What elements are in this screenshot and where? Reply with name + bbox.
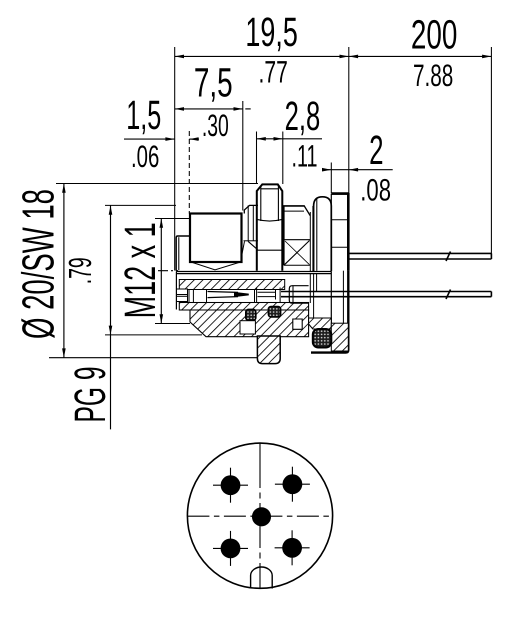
m12 ext top — [155, 218, 190, 220]
ext line 7,5 right — [242, 101, 244, 211]
ext line right 200 — [490, 47, 492, 256]
pg9 ext top — [105, 204, 176, 206]
svg-text:7,5: 7,5 — [194, 59, 233, 105]
ext line 2,8 left — [256, 132, 258, 185]
thread runout V — [191, 262, 241, 270]
section boundary line — [176, 270, 331, 272]
wire break slash — [446, 290, 451, 300]
svg-text:PG 9: PG 9 — [66, 367, 115, 423]
gasket arch — [314, 197, 332, 271]
hex nut SW18 — [257, 184, 283, 270]
collar cylinder — [284, 206, 305, 265]
wire break slash — [446, 252, 451, 262]
svg-text:200: 200 — [411, 12, 458, 58]
svg-text:.77: .77 — [259, 54, 288, 89]
dia20 dim line vertical — [63, 184, 65, 358]
svg-text:.11: .11 — [292, 139, 318, 174]
arrows 2 outside — [322, 168, 331, 172]
pin 4 — [282, 538, 302, 558]
pin 2 — [283, 474, 303, 494]
thread barrel M12 — [190, 214, 242, 263]
svg-text:M12 x 1: M12 x 1 — [116, 222, 165, 318]
shell wall hatch top band — [179, 280, 284, 290]
svg-text:.30: .30 — [202, 108, 229, 143]
seal ring small 1 — [246, 309, 256, 320]
pg9 body mass hatch — [190, 310, 309, 337]
dia20 ext bottom — [49, 357, 258, 359]
arrows 200 — [482, 55, 491, 59]
ext line 1,5 right dashed — [188, 131, 190, 214]
svg-text:1,5: 1,5 — [126, 92, 161, 138]
svg-text:.79: .79 — [62, 257, 98, 284]
flange upper — [331, 194, 348, 271]
shell wall hatch bottom band — [179, 303, 308, 311]
face circle — [187, 443, 332, 588]
pin 5 center — [252, 507, 271, 526]
front pin tube — [177, 289, 188, 302]
svg-text:.06: .06 — [131, 139, 159, 174]
arrows 19,5 — [175, 55, 184, 59]
dim line 2 — [323, 169, 393, 171]
white notch in mass — [240, 321, 255, 334]
m12 dim line vertical — [160, 219, 162, 324]
svg-text:19,5: 19,5 — [245, 9, 297, 55]
vertical centerline — [259, 443, 261, 589]
washer slab — [309, 212, 311, 271]
arrows 2,8 — [257, 137, 266, 141]
flange lower hatch — [331, 323, 348, 351]
ext line 2 left — [330, 163, 332, 194]
seal ring small 2 — [268, 307, 280, 317]
dim line 19,5 — [175, 55, 349, 57]
step notch white — [293, 319, 302, 329]
centerline stub — [158, 270, 178, 272]
section boundary line 2 — [176, 273, 331, 275]
upper wire — [350, 252, 492, 262]
gasket lower verticals — [309, 274, 311, 304]
svg-text:7.88: 7.88 — [413, 58, 453, 93]
arrows m12 — [160, 219, 164, 228]
ext line 2,8 right — [282, 132, 284, 185]
washer step — [244, 205, 258, 213]
shell left edge — [175, 271, 177, 309]
arrows 1,5 outside — [165, 137, 174, 141]
svg-text:2,8: 2,8 — [285, 93, 321, 139]
dim line 200 — [349, 55, 492, 57]
dim line 7,5 — [175, 108, 243, 110]
svg-text:2: 2 — [369, 127, 383, 173]
ext line mid 19,5/200/2 — [348, 47, 350, 193]
pg9 ext bottom — [105, 334, 202, 336]
gasket pocket hatch — [309, 318, 332, 329]
sleeve — [289, 286, 308, 304]
thread runout X — [285, 241, 310, 265]
hex lower section hatch — [257, 336, 280, 364]
keyway notch — [251, 567, 273, 589]
ext line left 19,5 / 1,5 — [174, 47, 176, 271]
dia20 ext top — [56, 183, 258, 185]
front tip step — [176, 236, 190, 271]
lower wire — [281, 290, 491, 300]
dim line 1,5 — [124, 138, 175, 140]
pin 3 — [221, 539, 241, 559]
horizontal centerline — [187, 515, 332, 517]
dim line 2,8 — [257, 138, 323, 140]
big O-ring seal — [313, 329, 332, 348]
arrows 7,5 — [175, 107, 184, 111]
flange lower slab — [311, 271, 348, 353]
svg-text:.08: .08 — [360, 173, 391, 208]
pin 1 — [221, 475, 241, 495]
m12 ext bottom — [155, 323, 190, 325]
arrows dia20 — [62, 184, 66, 193]
pg9 dim line vertical — [110, 206, 112, 430]
arrows pg9 — [109, 206, 113, 215]
contact pin — [208, 291, 239, 294]
insulator block — [189, 290, 207, 303]
pin cross marks — [213, 467, 310, 566]
svg-text:Ø 20/SW 18: Ø 20/SW 18 — [13, 189, 64, 339]
crimp details — [255, 271, 332, 329]
